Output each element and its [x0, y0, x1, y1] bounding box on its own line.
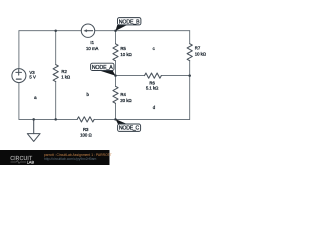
wire R5 to node A — [115, 61, 117, 76]
junction node top R2 — [54, 29, 57, 32]
wire R2 column upper — [55, 31, 57, 65]
junction R2 bottom — [54, 118, 57, 121]
watermark text line 2 — [44, 157, 97, 161]
wire left edge upper — [18, 31, 20, 69]
watermark text line 1 — [44, 153, 112, 157]
svg-text:5.1 kΩ: 5.1 kΩ — [146, 86, 159, 91]
svg-text:NODE_C: NODE_C — [119, 126, 140, 132]
node c — [153, 46, 156, 51]
svg-text:I1: I1 — [90, 40, 94, 45]
svg-text:5 V: 5 V — [29, 74, 36, 79]
wire node A to R6 — [116, 75, 145, 77]
svg-text:R5: R5 — [120, 46, 126, 51]
svg-text:R6: R6 — [149, 80, 155, 85]
junction node right mid — [188, 74, 191, 77]
svg-text:R3: R3 — [83, 127, 89, 132]
wire right edge upper — [189, 31, 191, 44]
wire top rail left — [19, 30, 81, 32]
node label NODE_B — [116, 18, 141, 31]
wire right edge lower — [189, 61, 191, 120]
label R5 — [120, 46, 132, 57]
svg-text:R7: R7 — [195, 45, 201, 50]
label I1 — [86, 40, 99, 51]
svg-text:20 kΩ: 20 kΩ — [120, 98, 132, 103]
label R2 — [61, 69, 71, 79]
wire R6 to right edge — [161, 75, 189, 77]
junction node B — [114, 29, 117, 32]
voltage source V3 — [12, 69, 26, 83]
junction ground — [32, 118, 35, 121]
svg-text:http://circuitlab.com/c/py9nx2: http://circuitlab.com/c/py9nx2rf9am — [44, 157, 97, 161]
svg-text:R4: R4 — [120, 92, 126, 97]
junction node A — [114, 74, 117, 77]
node d — [153, 105, 156, 110]
ground — [27, 119, 40, 141]
svg-text:R2: R2 — [61, 69, 67, 74]
junction node C — [114, 118, 117, 121]
svg-text:100 Ω: 100 Ω — [80, 132, 92, 137]
resistor R7 — [187, 44, 192, 61]
resistor R5 — [113, 44, 118, 61]
svg-text:NODE_A: NODE_A — [92, 65, 113, 71]
label V3 — [29, 70, 36, 79]
watermark logo CIRCUIT LAB — [10, 156, 34, 165]
node label NODE_A — [91, 63, 116, 75]
label R4 — [120, 92, 132, 103]
node a — [34, 95, 37, 100]
wire left edge lower — [18, 83, 20, 120]
wire R2 column lower — [55, 82, 57, 120]
wire top rail right — [95, 30, 190, 32]
resistor R3 — [77, 117, 94, 122]
wire R4 column lower — [115, 103, 117, 119]
svg-text:LAB: LAB — [27, 161, 35, 165]
svg-text:10 kΩ: 10 kΩ — [120, 52, 132, 57]
svg-text:1 kΩ: 1 kΩ — [61, 75, 71, 80]
svg-text:10 kΩ: 10 kΩ — [195, 51, 207, 56]
svg-text:NODE_B: NODE_B — [119, 19, 140, 25]
resistor R6 — [145, 73, 162, 78]
watermark bar — [0, 150, 110, 165]
label R6 — [146, 80, 159, 90]
current source I1 — [81, 24, 94, 37]
label R7 — [195, 45, 207, 56]
resistor R4 — [113, 86, 118, 103]
label R3 — [80, 127, 92, 137]
resistor R2 — [53, 65, 58, 82]
wire R4 column upper — [115, 76, 117, 87]
node b — [87, 92, 90, 97]
wire bottom rail right — [94, 118, 190, 120]
svg-text:10 mA: 10 mA — [86, 46, 99, 51]
node label NODE_C — [116, 119, 141, 132]
wire R5 column upper — [115, 31, 117, 44]
wire bottom rail left — [19, 118, 77, 120]
